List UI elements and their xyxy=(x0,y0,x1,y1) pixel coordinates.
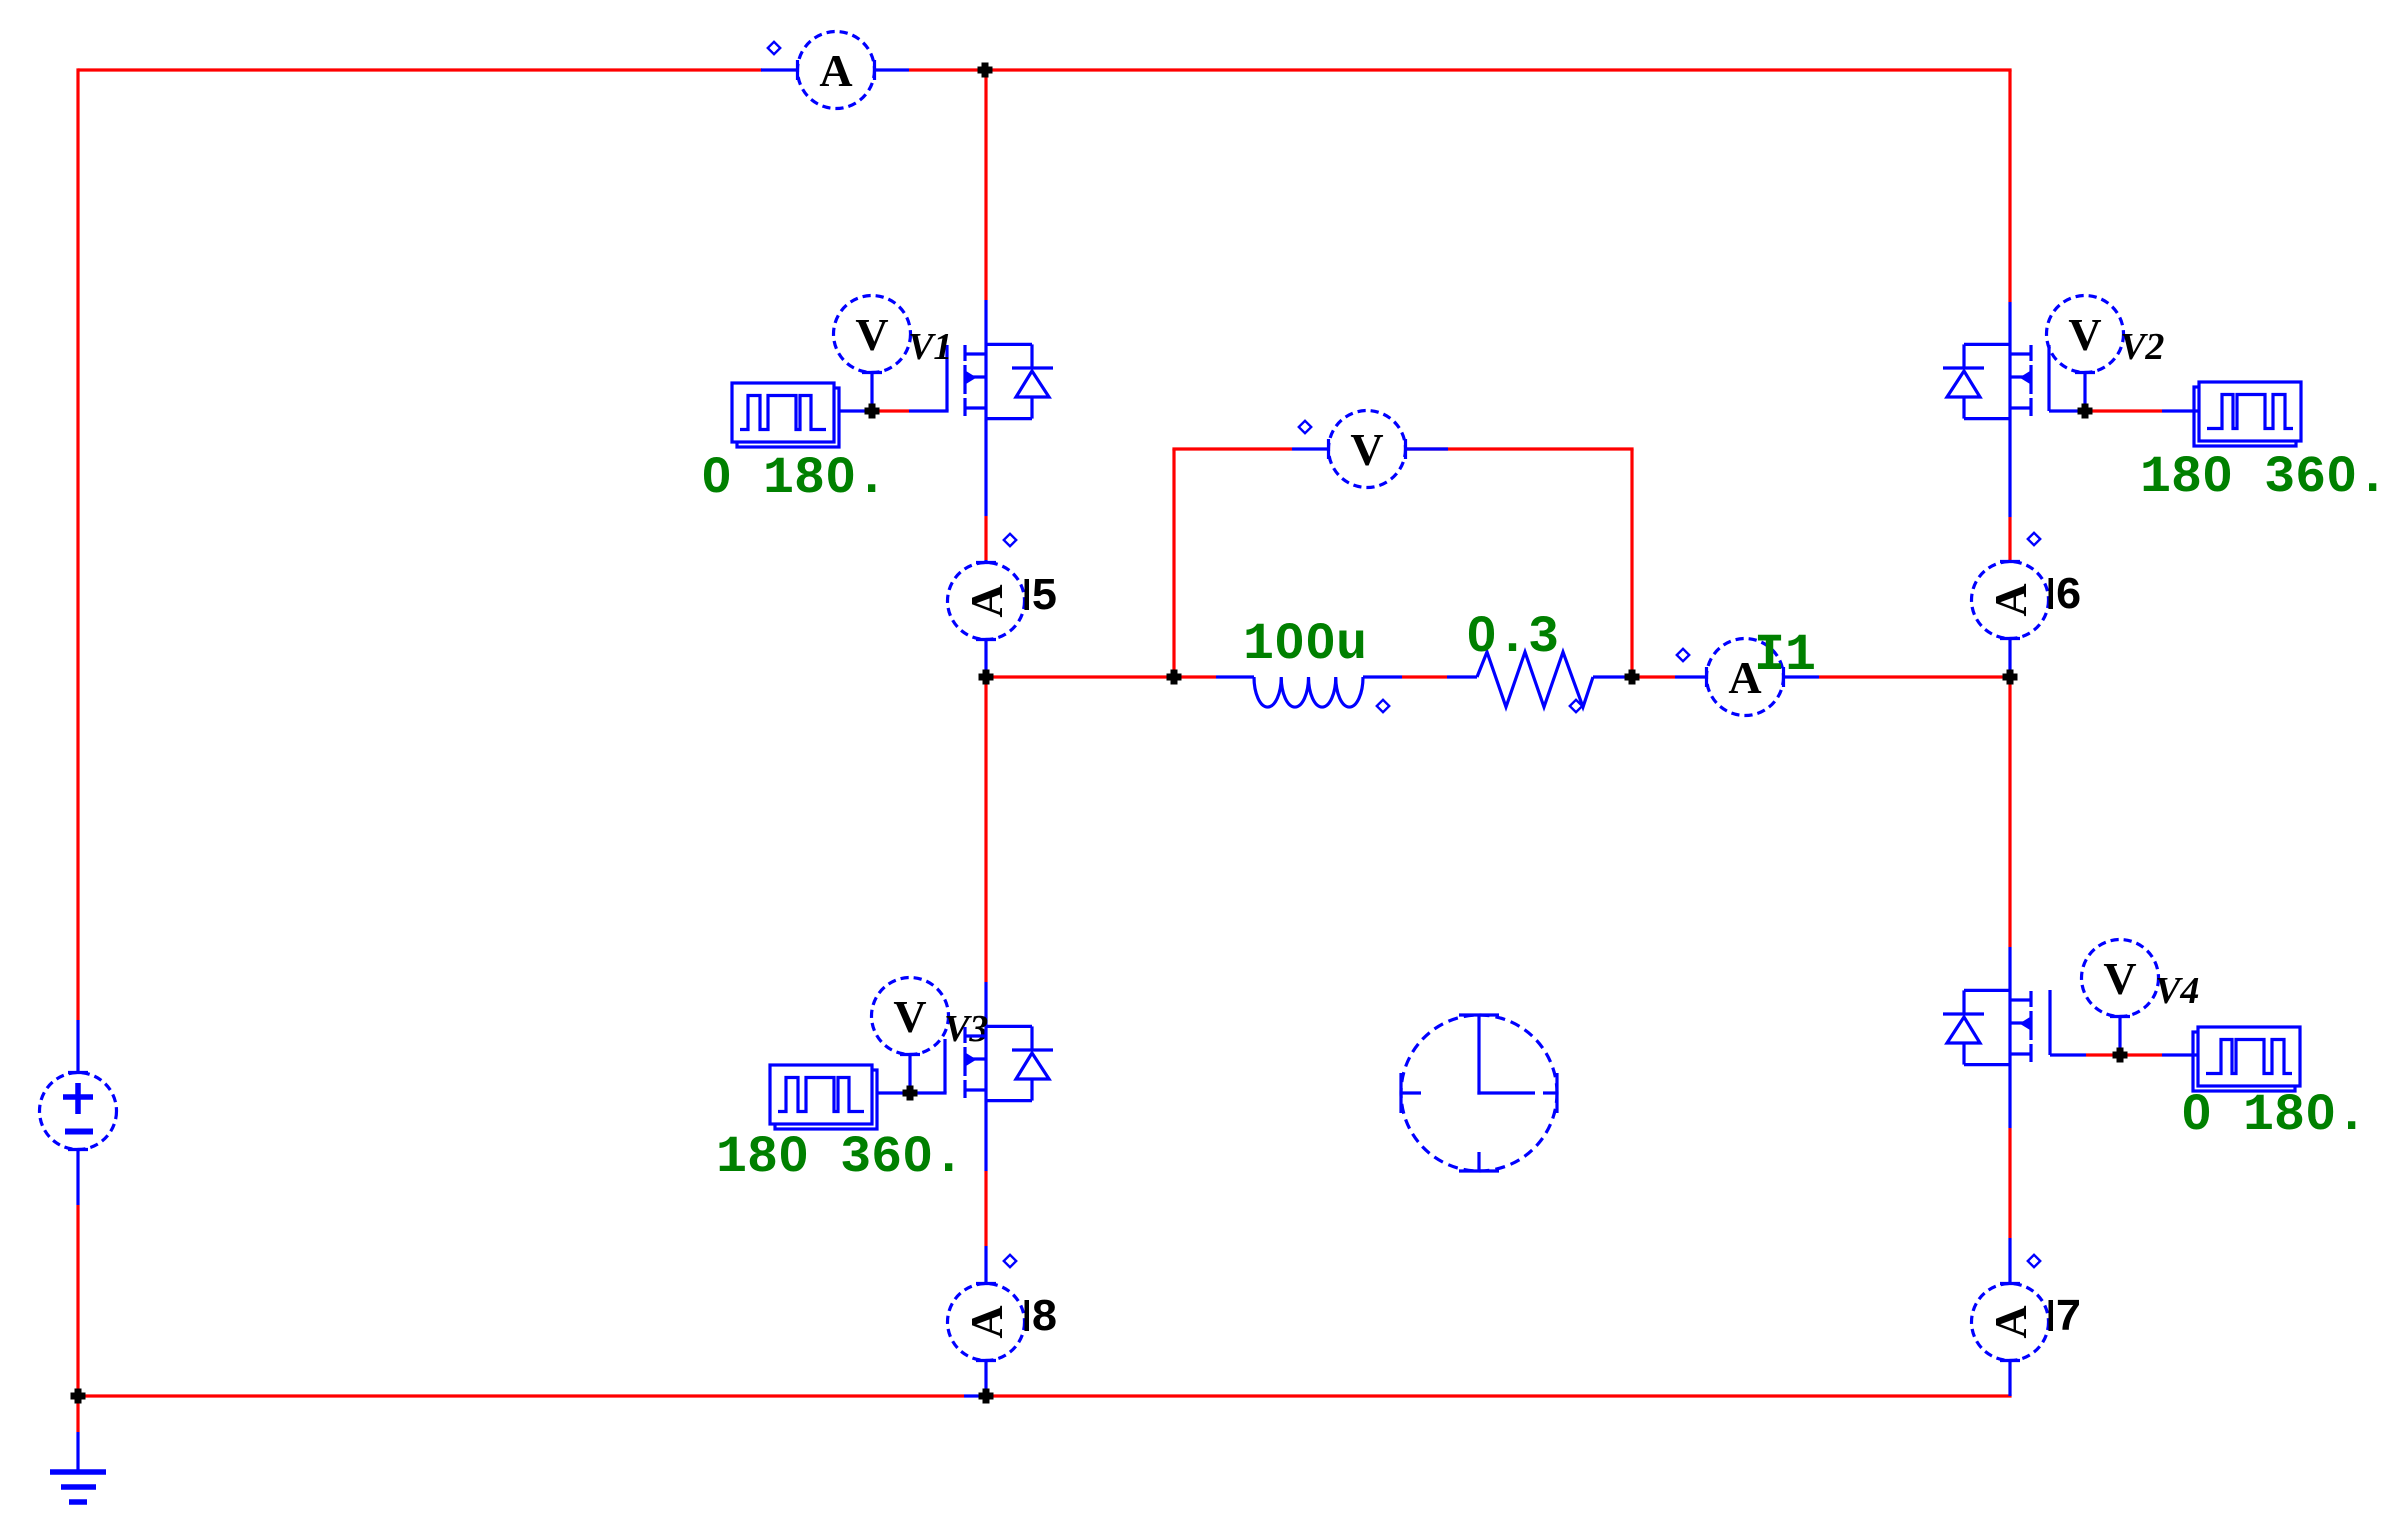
svg-text:V: V xyxy=(893,991,926,1042)
lead E1 top stem xyxy=(76,1020,79,1073)
gate wiring V4: pulse source to gate xyxy=(2162,1053,2198,1056)
lead ammeter A1 left xyxy=(761,68,798,71)
wire source E1 to bottom-left junction xyxy=(76,1205,79,1396)
lead AM8 top stem xyxy=(984,1246,987,1284)
ammeter AM7 xyxy=(1972,1284,2049,1361)
svg-text:A: A xyxy=(1985,1305,2036,1338)
ammeter AM7 label M7 xyxy=(2049,1300,2054,1331)
wire top rail left (E1+ to ammeter A1) xyxy=(78,68,762,71)
svg-text:6: 6 xyxy=(2055,571,2082,622)
lead AM7 top stem xyxy=(2008,1238,2011,1284)
ammeter AM6 xyxy=(1972,562,2049,639)
lead voltmeter V2 stem xyxy=(2083,373,2086,412)
wire mid rail: I1 to right mid junction xyxy=(1819,675,2010,678)
gate wiring V2: pulse source to gate xyxy=(2162,409,2199,412)
lead voltmeter V3 stem xyxy=(908,1055,911,1094)
svg-text:V: V xyxy=(2103,953,2136,1004)
lead I1 left xyxy=(1675,675,1707,678)
wire mid rail: inductor to resistor xyxy=(1402,675,1447,678)
ammeter AM5 label M5 xyxy=(1025,579,1030,610)
node: bottom mid junction xyxy=(979,1389,994,1404)
lead AM5 bottom stem xyxy=(984,640,987,678)
resistor R1 0.3 xyxy=(1477,652,1593,707)
lead load V left xyxy=(1292,447,1329,450)
wire mid rail: left junction to load inductor xyxy=(986,675,1174,678)
lead voltmeter V1 stem xyxy=(870,373,873,412)
lead V3 source (blue) xyxy=(984,1099,987,1171)
polarity marker AM6 xyxy=(2028,533,2040,545)
pulse source for V4 xyxy=(2193,1027,2300,1091)
clock hand horizontal xyxy=(1477,1091,1535,1094)
svg-text:5: 5 xyxy=(1031,572,1058,623)
svg-text:7: 7 xyxy=(2055,1293,2082,1344)
DC source plus sign xyxy=(63,1094,93,1100)
lead AM6 bottom stem xyxy=(2008,639,2011,678)
DC source E1 xyxy=(40,1073,117,1150)
wire voltmeter branch: right riser xyxy=(1630,449,1633,677)
MOSFET V3 (bottom left) with body diode xyxy=(965,1026,1053,1100)
clock tick bottom xyxy=(1477,1152,1480,1171)
gate wiring V3: pulse source to gate xyxy=(876,1091,904,1094)
polarity marker load V xyxy=(1299,421,1311,433)
polarity marker AM5 xyxy=(1004,534,1016,546)
svg-text:A: A xyxy=(1985,583,2036,616)
lead V4 source (blue) xyxy=(2008,1063,2011,1128)
wire right leg: V2 source to ammeter AM6 xyxy=(2008,517,2011,560)
lead bottom rail stub at AM8 junction xyxy=(964,1394,981,1397)
node: V1 gate junction xyxy=(865,404,880,419)
lead V2 source (blue) xyxy=(2008,417,2011,517)
polarity marker AM7 xyxy=(2028,1255,2040,1267)
lead V4 drain (blue) xyxy=(2008,947,2011,992)
svg-text:8: 8 xyxy=(1031,1293,1058,1344)
lead AM8 bottom stem xyxy=(984,1361,987,1397)
lead V1 drain (blue) xyxy=(984,300,987,346)
node: mid rail right junction xyxy=(2003,670,2018,685)
wire top rail right (top junction to right leg) xyxy=(984,68,2012,71)
ammeter AM5 xyxy=(948,563,1025,640)
lead load V right xyxy=(1406,447,1448,450)
wire left rail down (top left corner to source E1) xyxy=(76,68,79,1020)
svg-text:I1: I1 xyxy=(1754,626,1816,685)
wire mid rail: resistor to ammeter I1 xyxy=(1638,675,1675,678)
svg-text:0 180.: 0 180. xyxy=(2181,1086,2367,1145)
lead E1 bottom stem xyxy=(76,1150,79,1206)
lead inductor right xyxy=(1363,675,1402,678)
pulse source for V1 xyxy=(732,383,839,447)
svg-text:V2: V2 xyxy=(2120,326,2164,368)
svg-text:180 360.: 180 360. xyxy=(2140,448,2388,507)
wire right leg: top rail to MOSFET V2 drain xyxy=(2008,70,2011,302)
svg-text:V: V xyxy=(855,309,888,360)
node: V3 gate junction xyxy=(903,1086,918,1101)
pulse source for V3 xyxy=(770,1065,877,1129)
lead AM7 bottom stem xyxy=(2008,1361,2011,1397)
svg-text:0 180.: 0 180. xyxy=(701,449,887,508)
polarity marker inductor xyxy=(1377,700,1389,712)
pulse source for V2 xyxy=(2194,382,2301,446)
ammeter AM6 label M6 xyxy=(2049,578,2054,609)
polarity marker I1 xyxy=(1677,649,1689,661)
wire left leg: mid junction to MOSFET V3 drain xyxy=(984,677,987,982)
ammeter I1 (load current) xyxy=(1707,639,1784,716)
wire left leg: V1 source to ammeter AM5 xyxy=(984,516,987,560)
node: V2 gate junction xyxy=(2078,404,2093,419)
ground symbol xyxy=(50,1469,106,1475)
wire voltmeter branch: top left segment xyxy=(1172,447,1292,450)
MOSFET V1 (top left) with body diode xyxy=(965,344,1053,418)
wire voltmeter branch: left riser xyxy=(1172,449,1175,677)
MOSFET V2 (top right, mirrored) with body diode xyxy=(1943,344,2031,418)
gate voltmeter of V4 xyxy=(2082,940,2159,1017)
wire voltmeter branch: top right segment xyxy=(1406,447,1634,450)
wire bottom rail right xyxy=(991,1394,2012,1397)
wire left leg: top junction to MOSFET V1 drain xyxy=(984,70,987,300)
node: load right junction xyxy=(1625,670,1640,685)
lead V1 source to AM5 (blue) xyxy=(984,417,987,516)
lead resistor left xyxy=(1447,675,1477,678)
svg-text:V: V xyxy=(2068,309,2101,360)
ammeter A1 (DC link current) xyxy=(798,32,875,109)
MOSFET V4 (bottom right, mirrored) with body diode xyxy=(1943,990,2031,1064)
ammeter AM8 xyxy=(948,1284,1025,1361)
lead resistor right xyxy=(1593,675,1638,678)
polarity marker resistor xyxy=(1570,700,1582,712)
polarity marker AM8 xyxy=(1004,1255,1016,1267)
inductor L1 100u xyxy=(1254,677,1363,707)
svg-text:A: A xyxy=(961,1305,1012,1338)
node: load left junction xyxy=(1167,670,1182,685)
clock tick left xyxy=(1401,1091,1421,1094)
voltmeter VM load xyxy=(1329,411,1406,488)
svg-text:A: A xyxy=(961,584,1012,617)
gate voltmeter of V2 xyxy=(2047,296,2124,373)
lead I1 right xyxy=(1783,675,1819,678)
svg-text:V4: V4 xyxy=(2155,970,2199,1012)
polarity marker A1 xyxy=(768,42,780,54)
node: top junction xyxy=(978,63,993,78)
lead inductor left xyxy=(1216,675,1254,678)
lead ammeter A1 right xyxy=(874,68,909,71)
lead V2 drain (blue) xyxy=(2008,302,2011,346)
gate voltmeter of V3 xyxy=(872,978,949,1055)
wire right leg: V4 source to ammeter AM7 xyxy=(2008,1128,2011,1238)
node: bottom left junction xyxy=(71,1389,86,1404)
lead V3 drain (blue) xyxy=(984,982,987,1028)
wire bottom-left junction to ground stub xyxy=(76,1396,79,1432)
node: V4 gate junction xyxy=(2113,1048,2128,1063)
svg-text:V1: V1 xyxy=(908,326,952,368)
gate wiring V1: pulse source to gate xyxy=(838,409,866,412)
simulation clock symbol xyxy=(1401,1015,1557,1171)
wire left leg: V3 source to ammeter AM8 xyxy=(984,1171,987,1246)
svg-text:A: A xyxy=(819,45,852,96)
lead ground stem xyxy=(76,1432,79,1472)
clock hand vertical xyxy=(1477,1015,1480,1095)
DC source minus sign xyxy=(65,1129,93,1135)
gate voltmeter of V1 xyxy=(834,296,911,373)
svg-text:100u: 100u xyxy=(1243,615,1367,674)
svg-text:V: V xyxy=(1350,424,1383,475)
wire bottom rail left xyxy=(78,1394,964,1397)
ammeter AM8 label M8 xyxy=(1025,1300,1030,1331)
wire right leg: mid junction to MOSFET V4 drain xyxy=(2008,677,2011,947)
wire top rail mid (A1 to top junction) xyxy=(909,68,986,71)
clock tick right xyxy=(1543,1091,1557,1094)
svg-text:180 360.: 180 360. xyxy=(716,1128,964,1187)
node: mid rail left junction xyxy=(979,670,994,685)
lead voltmeter V4 stem xyxy=(2118,1017,2121,1056)
